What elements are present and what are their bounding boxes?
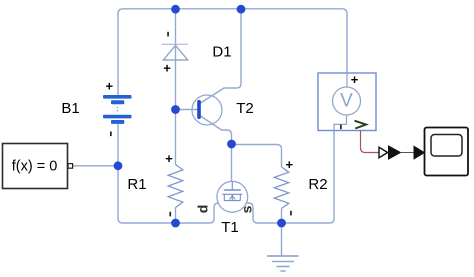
battery minus [110,132,112,137]
wire T2 collector to top rail [199,9,241,104]
PS-Simulink converter [379,146,401,159]
svg-text:B1: B1 [61,100,79,117]
svg-text:R1: R1 [127,176,146,193]
voltmeter block [318,73,376,131]
svg-text:d: d [195,205,211,214]
svg-text:D1: D1 [212,44,231,61]
svg-text:+: + [165,151,173,166]
node R2/ground junction [277,219,286,228]
svg-text:+: + [106,79,114,94]
wire R2 bottom lead [281,209,283,224]
wire bottom node to voltmeter minus [282,131,335,224]
resistor R1 [168,165,183,208]
node emitter junction [227,140,236,149]
svg-text:T2: T2 [236,100,254,117]
wire R1 bottom lead [175,208,177,224]
ground [267,256,299,271]
wire ground stem [281,223,283,256]
wire node to T1 gate [231,144,233,182]
svg-text:V: V [340,91,353,112]
wire diode/R1 column [175,9,177,165]
wire T2 base [176,109,198,111]
node top-left junction [171,5,180,14]
svg-text:+: + [163,61,171,76]
wire node to R2 top [232,145,282,168]
svg-text:+: + [286,157,294,172]
wire battery bottom to bottom rail [118,124,176,224]
voltmeter minus [340,125,342,130]
wire solver to battery node [73,165,119,167]
voltmeter PS port [355,121,367,129]
battery B1 [103,95,132,124]
diode minus [167,32,169,37]
node battery/solver junction [114,161,123,170]
svg-text:T1: T1 [221,219,239,236]
wire bottom rail to T1 drain [176,203,220,223]
resistor R2 [274,167,289,209]
svg-text:f(x) = 0: f(x) = 0 [12,159,58,175]
diode D1 [162,44,188,60]
mosfet T1 [217,181,248,212]
wire T2 emitter to node [199,115,232,144]
signal wire to scope [401,152,415,154]
R2 minus [290,211,292,216]
transistor T2 [192,95,222,125]
wire T1 source to bottom node [246,203,282,223]
svg-text:R2: R2 [308,176,327,193]
node diode/base junction [171,105,180,114]
solver block f(x)=0 [3,144,73,189]
physical signal wire (red) [361,131,379,153]
svg-text:s: s [239,205,255,213]
scope block [425,128,469,176]
wire top rail from battery to voltmeter [118,9,347,95]
node R1 bottom junction [171,219,180,228]
R1 minus [169,212,171,217]
node top-right junction [237,5,246,14]
signal arrowhead [414,146,424,159]
svg-text:+: + [351,72,359,87]
